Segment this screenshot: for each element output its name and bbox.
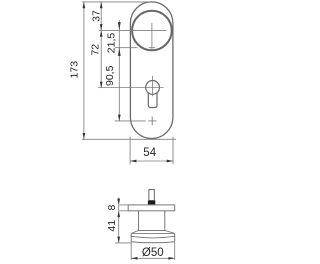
dim Ø50 extension lines [130,242,132,260]
lower fixing cross [148,120,156,122]
spindle [149,190,154,201]
spindle collar (black) [148,201,155,205]
dim line 37/72 [100,2,102,88]
flange (rose plate) [128,205,175,211]
svg-text:90,5: 90,5 [104,65,116,86]
svg-text:41: 41 [106,220,118,232]
extension line 21,5 [115,47,138,49]
svg-text:173: 173 [69,61,81,79]
dim line 8/41 [118,198,120,243]
knob shoulder [131,231,175,234]
plate outline (front view, 54x173 rounded ends) [130,2,173,139]
svg-text:21,5: 21,5 [106,33,118,54]
extension line top [82,1,151,3]
cylinder centerline horizontal [98,87,164,89]
svg-text:8: 8 [106,205,118,211]
dim 54 extension lines [129,137,131,165]
svg-text:Ø50: Ø50 [142,247,164,259]
svg-text:72: 72 [89,44,101,56]
cylinder centerline vertical [152,76,154,96]
knob rim [131,232,175,234]
extension line 90,5 bottom [115,120,146,122]
knob rose circle Ø50 [132,11,172,51]
dim 41 extension line [115,242,132,244]
euro profile cylinder hole [146,81,160,95]
svg-text:37: 37 [91,10,103,22]
svg-text:54: 54 [143,147,156,159]
knob centerline vertical [151,23,153,49]
knob centerline horizontal [99,29,166,31]
dim line 173 [83,2,85,139]
dim line 54 [130,160,173,162]
tick at 21,5 below knob center [149,47,156,49]
knob bottom face [131,242,175,243]
extension line bottom [82,138,176,140]
knob face seam [131,236,174,238]
dim line 21,5 / 90,5 [118,20,120,121]
dim 8 extension lines [120,204,129,206]
dim line Ø50 [131,257,175,259]
neck [138,211,140,231]
